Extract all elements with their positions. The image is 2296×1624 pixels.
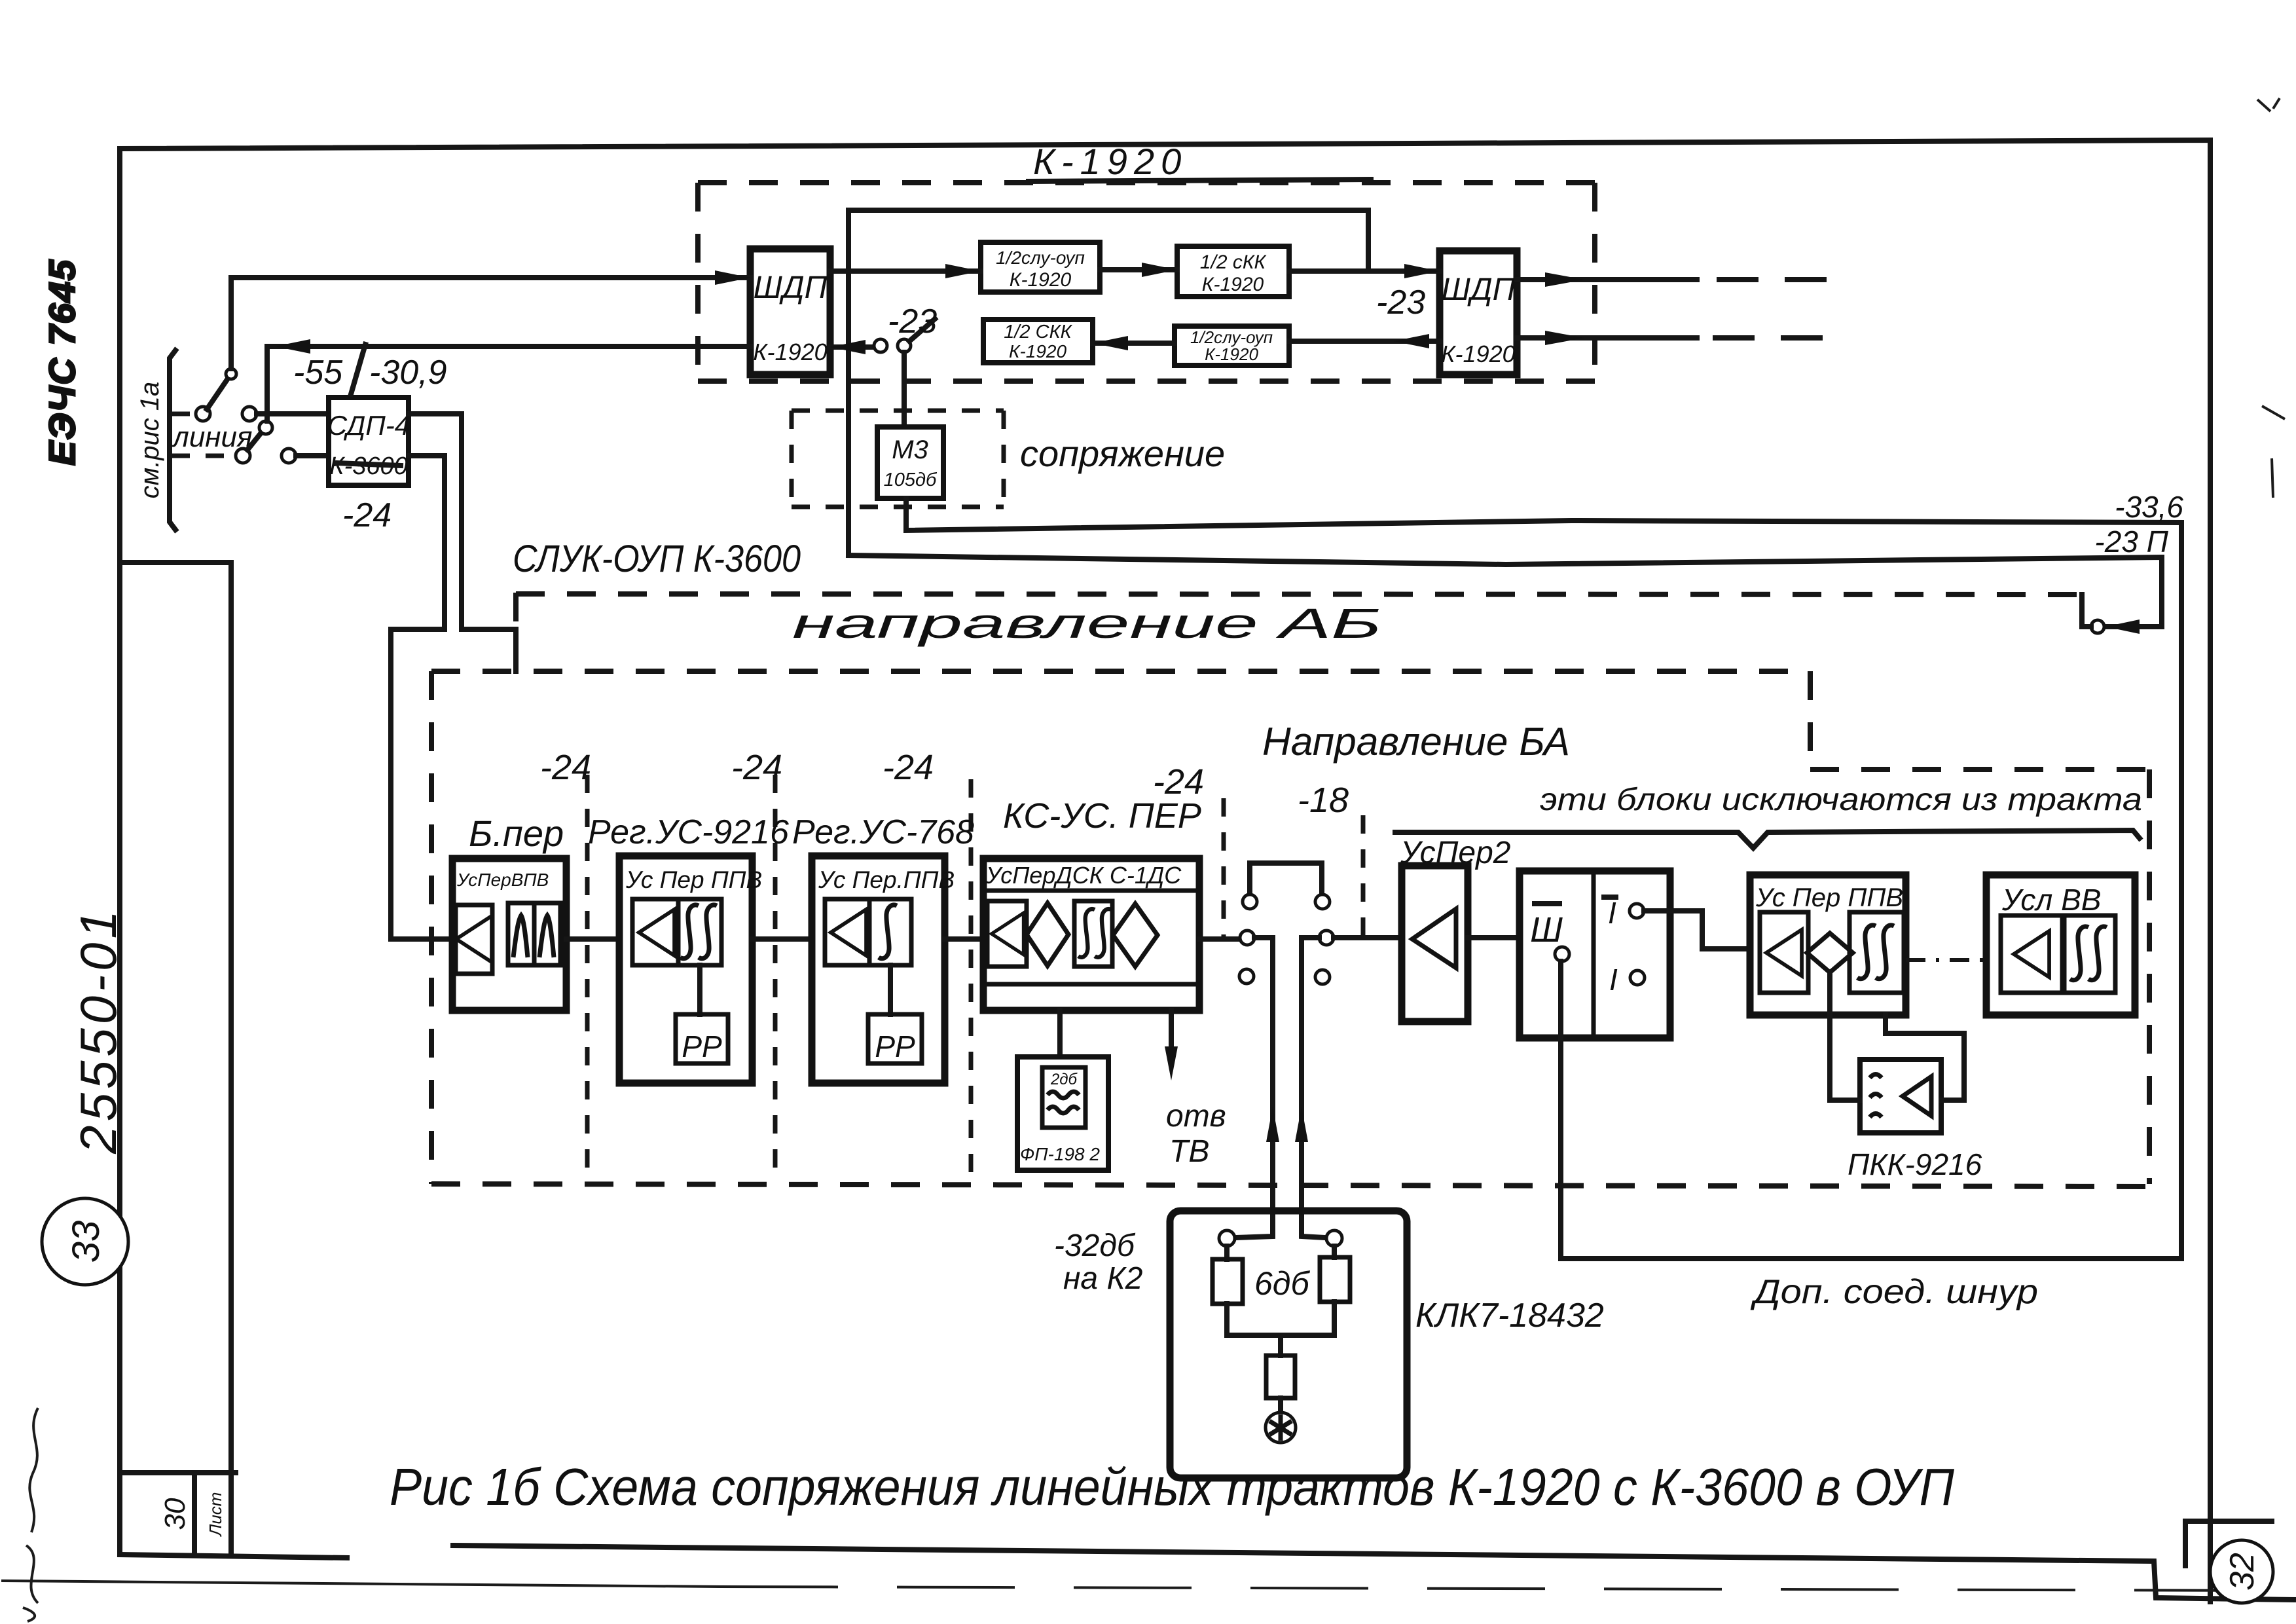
svg-text:К-1920: К-1920 [1009, 341, 1067, 361]
svg-text:К-1920: К-1920 [1202, 274, 1264, 295]
svg-text:УсПерВПВ: УсПерВПВ [456, 870, 549, 890]
svg-text:ФП-198 2: ФП-198 2 [1020, 1144, 1100, 1164]
svg-text:УсПерДСК С-1ДС: УсПерДСК С-1ДС [985, 862, 1182, 889]
svg-text:-24: -24 [540, 748, 591, 787]
svg-text:-18: -18 [1298, 781, 1349, 820]
svg-text:Ус Пер ППВ: Ус Пер ППВ [1755, 883, 1903, 912]
svg-text:эти блоки исключаются из тракт: эти блоки исключаются из тракта [1540, 783, 2142, 817]
svg-text:КС-УС. ПЕР: КС-УС. ПЕР [1003, 796, 1201, 836]
svg-text:ПКК-9216: ПКК-9216 [1848, 1147, 1982, 1181]
svg-text:см.рис 1а: см.рис 1а [136, 382, 164, 499]
svg-text:на К2: на К2 [1063, 1261, 1142, 1296]
svg-text:СДП-4: СДП-4 [327, 410, 410, 441]
svg-text:отв: отв [1166, 1099, 1226, 1134]
svg-text:-30,9: -30,9 [369, 354, 447, 392]
svg-text:Рег.УС-768: Рег.УС-768 [792, 813, 974, 851]
svg-text:-32дб: -32дб [1054, 1228, 1136, 1263]
svg-text:-23: -23 [1376, 284, 1425, 322]
svg-text:I: I [1608, 896, 1616, 930]
svg-text:М3: М3 [892, 435, 928, 464]
svg-text:30: 30 [159, 1498, 191, 1530]
svg-text:Рег.УС-9216: Рег.УС-9216 [588, 813, 789, 851]
svg-text:направление АБ: направление АБ [792, 600, 1381, 647]
svg-text:6дб: 6дб [1254, 1265, 1310, 1302]
svg-text:КЛК7-18432: КЛК7-18432 [1415, 1297, 1604, 1335]
svg-text:25550-01: 25550-01 [69, 906, 127, 1154]
svg-text:сопряжение: сопряжение [1020, 433, 1225, 474]
svg-text:I: I [1609, 963, 1618, 997]
svg-text:32: 32 [2223, 1553, 2261, 1591]
svg-text:К-1920: К-1920 [753, 339, 827, 365]
svg-text:1/2 СКК: 1/2 СКК [1004, 322, 1072, 342]
svg-text:ШДП: ШДП [1442, 272, 1516, 307]
svg-text:Б.пер: Б.пер [469, 813, 564, 854]
svg-text:-33,6: -33,6 [2115, 490, 2183, 524]
svg-text:-24: -24 [883, 748, 934, 787]
svg-text:ЕЭЧС 7645: ЕЭЧС 7645 [41, 259, 82, 466]
svg-text:СЛУК-ОУП К-3600: СЛУК-ОУП К-3600 [513, 538, 801, 580]
svg-text:Лист: Лист [206, 1492, 225, 1538]
svg-text:-23 П: -23 П [2094, 525, 2168, 559]
svg-text:33: 33 [65, 1221, 107, 1263]
svg-text:Ус Пер ППВ: Ус Пер ППВ [625, 866, 762, 893]
svg-text:-23: -23 [888, 303, 937, 341]
svg-text:Ус Пер.ППВ: Ус Пер.ППВ [818, 866, 955, 893]
svg-text:ТВ: ТВ [1169, 1134, 1209, 1169]
svg-text:-55: -55 [293, 354, 343, 392]
svg-text:Направление БА: Направление БА [1262, 720, 1570, 764]
svg-text:105дб: 105дб [884, 470, 938, 490]
svg-text:Доп. соед. шнур: Доп. соед. шнур [1750, 1273, 2038, 1311]
svg-text:-24: -24 [1153, 762, 1204, 802]
svg-text:1/2слу-оуп: 1/2слу-оуп [996, 248, 1085, 268]
svg-text:Усл ВВ: Усл ВВ [2001, 883, 2101, 917]
svg-text:К-1920: К-1920 [1033, 141, 1188, 182]
svg-text:РР: РР [875, 1029, 915, 1063]
svg-text:ШДП: ШДП [754, 270, 828, 305]
svg-text:К-1920: К-1920 [1441, 341, 1515, 367]
svg-text:Ш: Ш [1530, 910, 1563, 950]
svg-text:-24: -24 [342, 496, 392, 534]
svg-text:2дб: 2дб [1050, 1071, 1078, 1088]
svg-text:К-1920: К-1920 [1205, 344, 1258, 364]
svg-text:1/2 сКК: 1/2 сКК [1200, 251, 1267, 273]
svg-text:К-1920: К-1920 [1010, 269, 1072, 291]
svg-text:РР: РР [682, 1029, 722, 1063]
